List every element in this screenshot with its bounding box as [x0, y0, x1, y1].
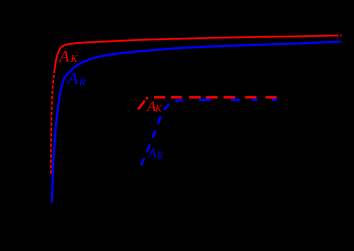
svg-text:A: A	[58, 47, 69, 65]
main curve A_K steep section (red, fine-dashed)	[51, 72, 54, 174]
main curve A_K flat section (red, solid)	[54, 35, 342, 72]
svg-text:K: K	[154, 105, 162, 115]
label A_R (main, blue)	[67, 69, 86, 89]
inset curve A_K asymptote dashes (red)	[154, 96, 277, 98]
svg-text:K: K	[70, 54, 79, 65]
main curve A_R (blue, solid)	[52, 41, 342, 202]
inset curve A_K rising dash (red)	[138, 98, 148, 110]
label A_R (inset, blue)	[147, 145, 163, 160]
svg-text:A: A	[67, 69, 79, 88]
label A_K (main, red)	[58, 47, 78, 65]
svg-text:R: R	[156, 151, 163, 161]
label A_K (inset, red)	[146, 99, 162, 115]
svg-text:A: A	[147, 145, 157, 160]
svg-text:R: R	[78, 76, 86, 88]
inset curve A_R asymptote dashes (blue)	[199, 99, 277, 101]
inset curve A_R rising section (blue, dashed)	[141, 100, 190, 166]
